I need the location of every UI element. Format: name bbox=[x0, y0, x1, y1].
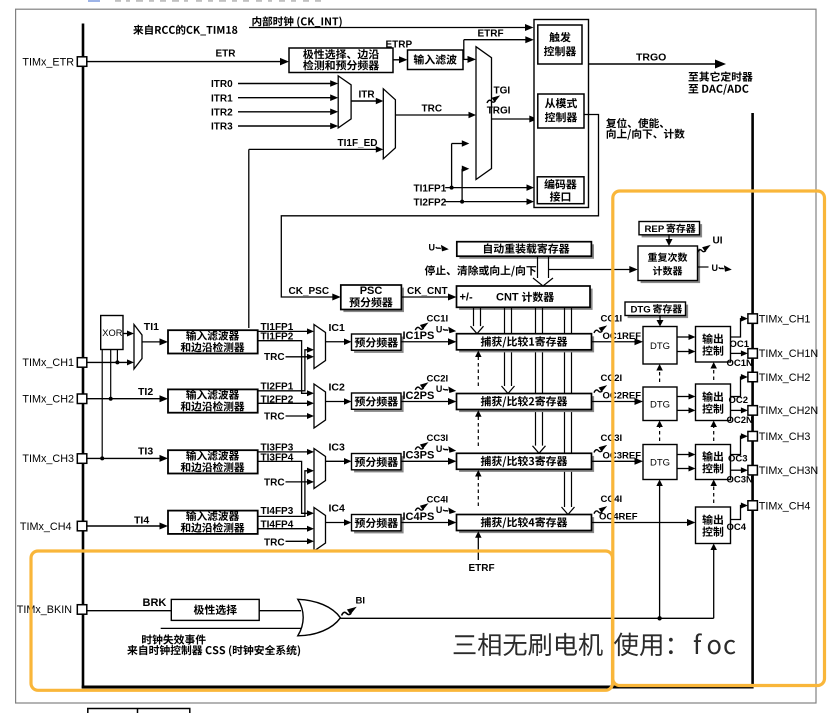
svg-text:OC3: OC3 bbox=[728, 454, 748, 465]
svg-text:ETRF: ETRF bbox=[469, 563, 495, 574]
mux IC1 select bbox=[314, 325, 326, 369]
arrow DTG reg to DTG1 bbox=[659, 316, 661, 322]
mux TI1 select (XOR/CH1) bbox=[134, 325, 142, 370]
pin TIMx_ETR bbox=[77, 57, 87, 67]
wire BRK bbox=[87, 610, 172, 612]
box encoder interface 编码器接口 bbox=[537, 177, 584, 204]
box prescaler 3 预分频器 bbox=[354, 456, 404, 472]
label 三相无刷电机使用：foc bbox=[454, 633, 603, 656]
box input filter & edge detector 2 输入滤波器和边沿检测器 bbox=[168, 389, 258, 412]
wire TRGI bbox=[492, 118, 530, 120]
svg-text:TI4FP4: TI4FP4 bbox=[261, 520, 294, 531]
dashed preload arrow into capture 1 bbox=[477, 356, 479, 387]
wire TI2FP2 row2 bbox=[258, 402, 308, 404]
wire BI to output-control column bbox=[340, 617, 714, 619]
box prescaler 4 预分频器 bbox=[354, 517, 404, 533]
box XOR bbox=[101, 316, 123, 350]
dashed break arrows into output controls bbox=[713, 486, 715, 503]
mux IC4 select bbox=[314, 508, 326, 552]
svg-text:TIMx_BKIN: TIMx_BKIN bbox=[17, 604, 72, 616]
box input filter & edge detector 3 输入滤波器和边沿检测器 bbox=[168, 450, 258, 473]
event icon U (ARR) bbox=[429, 243, 449, 253]
svg-text:TIMx_CH2N: TIMx_CH2N bbox=[759, 405, 818, 417]
wire TI1FP1 row1 bbox=[258, 330, 308, 332]
wire CH1 to TI1 mux bbox=[87, 361, 128, 363]
wire IC1 bbox=[326, 341, 345, 343]
wire XOR output bbox=[123, 333, 128, 335]
wire TI4FP3 row4 to IC3 bbox=[258, 471, 309, 517]
label UI + interrupt arrow bbox=[698, 245, 711, 253]
pin TIMx_BKIN bbox=[77, 605, 87, 615]
wire TI1FP2 row1 to IC2 bbox=[258, 341, 308, 394]
box REP register REP寄存器 bbox=[642, 224, 703, 237]
wire ITR3 bbox=[238, 125, 331, 127]
wire ETRF to trigger controller and TRGI mux bbox=[463, 58, 471, 60]
wire ETRP bbox=[393, 59, 401, 61]
svg-text:OC3REF: OC3REF bbox=[603, 450, 642, 461]
svg-text:TRC: TRC bbox=[264, 477, 285, 488]
wires DTG3 to output control bbox=[677, 454, 689, 456]
wire OC3 bbox=[731, 436, 742, 454]
box output control 3 输出控制 bbox=[696, 445, 731, 480]
pin TIMx_CH1 bbox=[748, 314, 758, 324]
svg-text:TIMx_ETR: TIMx_ETR bbox=[22, 57, 74, 69]
svg-text:TIMx_CH1: TIMx_CH1 bbox=[759, 313, 811, 325]
svg-text:TI4FP3: TI4FP3 bbox=[261, 506, 294, 517]
svg-text:DTG: DTG bbox=[650, 341, 670, 352]
wire clock-failure (CSS) to OR gate bbox=[161, 627, 303, 629]
event icon U (capture 1 left) bbox=[436, 324, 456, 334]
svg-text:IC4PS: IC4PS bbox=[403, 511, 435, 523]
label 时钟失效事件 bbox=[142, 634, 206, 644]
svg-text:TRC: TRC bbox=[422, 104, 443, 115]
wire XOR inputs from CH1/CH2/CH3 bbox=[116, 350, 118, 363]
svg-text:TIMx_CH2: TIMx_CH2 bbox=[759, 372, 811, 384]
svg-text:OC4REF: OC4REF bbox=[599, 512, 638, 523]
box polarity select 极性选择 bbox=[171, 599, 259, 620]
svg-text:TI2: TI2 bbox=[138, 386, 153, 398]
box repetition counter 重复次数计数器 bbox=[641, 249, 701, 284]
svg-text:ETRF: ETRF bbox=[478, 29, 504, 40]
svg-text:TI3: TI3 bbox=[138, 446, 153, 458]
right pin bus bbox=[751, 113, 754, 687]
box prescaler 2 预分频器 bbox=[354, 396, 404, 412]
label CC1I right + interrupt arrow bbox=[594, 325, 607, 333]
svg-text:CNT: CNT bbox=[496, 292, 519, 304]
svg-text:OC2: OC2 bbox=[729, 395, 749, 406]
wire TI4FP4 row4 bbox=[258, 528, 308, 530]
box trigger controller 触发控制器 bbox=[538, 25, 582, 64]
wire IC4PS bbox=[401, 522, 449, 524]
wire OC2N bbox=[731, 409, 742, 411]
svg-text:TIMx_CH3N: TIMx_CH3N bbox=[759, 465, 818, 477]
hollow arrow CNT to capture/compare 4 bbox=[564, 307, 566, 507]
svg-text:CK_PSC: CK_PSC bbox=[289, 286, 330, 297]
svg-text:BRK: BRK bbox=[143, 597, 167, 609]
pin TIMx_CH1 bbox=[77, 358, 87, 368]
wire TI3FP4 row3 to IC4 bbox=[258, 461, 308, 513]
box CNT counter CNT计数器 bbox=[459, 289, 592, 310]
svg-text:OC1: OC1 bbox=[730, 339, 750, 350]
box output control 4 输出控制 bbox=[696, 507, 731, 544]
svg-text:TIMx_CH1N: TIMx_CH1N bbox=[759, 348, 818, 360]
svg-text:OC2REF: OC2REF bbox=[603, 391, 642, 402]
svg-text:TI1: TI1 bbox=[144, 321, 159, 333]
svg-text:ITR1: ITR1 bbox=[211, 93, 233, 104]
wire TI2FP2 (to TRGI mux / encoder) bbox=[445, 201, 527, 203]
svg-text:BI: BI bbox=[356, 596, 366, 607]
wire TRGO bbox=[589, 63, 717, 65]
svg-text:IC3PS: IC3PS bbox=[403, 450, 435, 462]
highlight rect right (orange) bbox=[613, 191, 825, 686]
wire break to output control 4 bbox=[713, 550, 715, 618]
svg-text:IC2PS: IC2PS bbox=[403, 390, 435, 402]
svg-text:TRC: TRC bbox=[264, 352, 285, 363]
wire IC2PS bbox=[401, 401, 449, 403]
wire UEV to repetition counter bbox=[549, 269, 631, 271]
wire OC4 bbox=[731, 506, 742, 520]
mux ITR select bbox=[338, 76, 351, 128]
svg-text:IC1: IC1 bbox=[329, 322, 346, 334]
pin TIMx_CH3N bbox=[748, 465, 758, 475]
mux TRC select bbox=[383, 89, 395, 159]
svg-text:OC2N: OC2N bbox=[727, 415, 754, 426]
box input filter & edge detector 4 输入滤波器和边沿检测器 bbox=[168, 511, 258, 534]
svg-text:DTG: DTG bbox=[631, 304, 651, 315]
label 来自RCC的CK_TIM18 bbox=[133, 25, 237, 36]
svg-text:+/-: +/- bbox=[460, 292, 473, 304]
svg-text:IC4: IC4 bbox=[329, 503, 346, 515]
pin TIMx_CH2N bbox=[748, 406, 758, 416]
hollow arrow ARR to CNT bbox=[537, 256, 539, 278]
group box (trigger ctrl / slave mode / encoder) bbox=[534, 20, 589, 208]
hollow arrow CNT to capture/compare 2 bbox=[504, 307, 506, 386]
svg-text:XOR: XOR bbox=[102, 328, 122, 338]
label CC3I right + interrupt arrow bbox=[594, 445, 607, 453]
box capture/compare register 2 捕获/比较2寄存器 bbox=[459, 396, 594, 412]
label CC4I right + interrupt arrow bbox=[594, 506, 607, 514]
wire TRC row2 bbox=[286, 415, 308, 417]
svg-text:IC3: IC3 bbox=[329, 441, 346, 453]
hollow arrow CNT to capture/compare 1 bbox=[473, 307, 475, 326]
svg-text:OC3N: OC3N bbox=[727, 475, 754, 486]
box slave mode controller 从模式控制器 bbox=[538, 94, 584, 128]
event icon U (capture 3 left) bbox=[436, 444, 456, 454]
label TGI + interrupt arrow bbox=[487, 95, 500, 103]
wires DTG1 to output control bbox=[677, 336, 689, 338]
svg-text:ITR2: ITR2 bbox=[211, 107, 233, 118]
arrow REP to repetition counter bbox=[668, 235, 670, 240]
OR gate (break) bbox=[298, 599, 341, 636]
box DTG 1 bbox=[643, 327, 677, 365]
wire OC1REF bbox=[592, 341, 636, 343]
wire slave-mode feedback to CK_PSC bbox=[281, 115, 598, 298]
svg-text:ETRP: ETRP bbox=[386, 40, 413, 51]
box output control 1 输出控制 bbox=[696, 327, 731, 363]
wire OC1N bbox=[731, 352, 742, 354]
wire TRC (top) bbox=[395, 114, 469, 116]
box prescaler 1 预分频器 bbox=[354, 337, 404, 353]
hollow arrow CNT to capture/compare 3 bbox=[535, 307, 537, 446]
svg-text:TI3FP4: TI3FP4 bbox=[261, 452, 294, 463]
wire TI2 bbox=[87, 398, 160, 400]
label CC4I left + interrupt arrow bbox=[415, 503, 428, 511]
svg-text:TI2FP1: TI2FP1 bbox=[261, 382, 294, 393]
box input filter & edge detector 1 输入滤波器和边沿检测器 bbox=[168, 330, 258, 353]
svg-text:UI: UI bbox=[713, 236, 723, 247]
dashed break arrows into DTG1/DTG2 bbox=[659, 427, 661, 441]
svg-text:OC1REF: OC1REF bbox=[603, 331, 642, 342]
label CC2I right + interrupt arrow bbox=[594, 385, 607, 393]
pin TIMx_CH3 bbox=[77, 454, 87, 464]
svg-text:CC4I: CC4I bbox=[427, 494, 449, 505]
wire ITR1 bbox=[238, 97, 331, 99]
svg-text:DTG: DTG bbox=[650, 399, 670, 410]
box auto-reload register 自动重装载寄存器 bbox=[459, 244, 594, 258]
label 停止、清除或向上/向下 bbox=[425, 265, 536, 276]
svg-text:OC1N: OC1N bbox=[727, 358, 754, 369]
wires DTG2 to output control bbox=[677, 396, 689, 398]
box capture/compare register 1 捕获/比较1寄存器 bbox=[459, 336, 594, 352]
label 来自时钟控制器CSS(时钟安全系统) bbox=[127, 645, 300, 656]
wire TI3FP3 row3 bbox=[258, 451, 308, 453]
label BI + interrupt arrow bbox=[342, 607, 357, 616]
wire OC4REF bbox=[592, 522, 689, 524]
box capture/compare register 4 捕获/比较4寄存器 bbox=[459, 517, 594, 533]
svg-text:TRC: TRC bbox=[264, 538, 285, 549]
cropped title remnants top bbox=[115, 0, 121, 2]
svg-text:TI4: TI4 bbox=[134, 515, 149, 527]
event icon U (capture 2 left) bbox=[436, 384, 456, 394]
wire TI1FP1 (to TRGI mux / encoder) bbox=[445, 187, 527, 189]
svg-text:ITR: ITR bbox=[359, 90, 376, 101]
box input filter 输入滤波 bbox=[408, 50, 464, 70]
pin TIMx_CH2 bbox=[748, 372, 758, 382]
svg-text:CC3I: CC3I bbox=[427, 433, 449, 444]
wire IC1PS bbox=[401, 341, 449, 343]
svg-text:TIMx_CH3: TIMx_CH3 bbox=[759, 431, 811, 443]
wire OC3N bbox=[731, 469, 742, 471]
bottom bus bbox=[82, 686, 754, 689]
mux IC2 select bbox=[314, 384, 326, 428]
svg-text:TI1FP1: TI1FP1 bbox=[414, 183, 447, 194]
label CC2I left + interrupt arrow bbox=[415, 382, 428, 390]
wire CK_CNT bbox=[401, 296, 448, 298]
svg-text:TRC: TRC bbox=[264, 411, 285, 422]
svg-text:TI2FP2: TI2FP2 bbox=[261, 394, 294, 405]
wire TI1F_ED bbox=[248, 149, 250, 328]
box DTG 3 bbox=[643, 445, 677, 480]
wire CK_INT (internal clock) bbox=[249, 27, 527, 29]
wire IC3PS bbox=[401, 460, 449, 462]
svg-text:CK_CNT: CK_CNT bbox=[407, 286, 448, 297]
dashed preload arrow into capture 3 bbox=[477, 475, 479, 506]
mux TRGI select bbox=[476, 47, 492, 180]
wire TRC row4 bbox=[286, 540, 308, 542]
box PSC prescaler PSC预分频器 bbox=[343, 288, 404, 313]
event icon U (repetition) bbox=[698, 266, 709, 268]
pin TIMx_CH3 bbox=[748, 431, 758, 441]
wire TRC row1 bbox=[286, 356, 308, 358]
svg-text:TI2FP2: TI2FP2 bbox=[414, 197, 447, 208]
wire IC2 bbox=[326, 401, 345, 403]
svg-text:CC1I: CC1I bbox=[427, 314, 449, 325]
label 复位、使能、向上/向下、计数 bbox=[606, 118, 663, 128]
svg-text:ITR0: ITR0 bbox=[211, 79, 233, 90]
svg-text:DTG: DTG bbox=[650, 458, 670, 469]
wire IC4 bbox=[326, 522, 345, 524]
pin TIMx_CH1N bbox=[748, 349, 758, 359]
pin TIMx_CH4 bbox=[77, 521, 87, 531]
wire IC3 bbox=[326, 460, 345, 462]
wire TRC row3 bbox=[286, 481, 308, 483]
wire ITR bbox=[351, 100, 376, 102]
label CC3I left + interrupt arrow bbox=[415, 442, 428, 450]
svg-text:TIMx_CH1: TIMx_CH1 bbox=[22, 357, 74, 369]
box DTG 2 bbox=[643, 387, 677, 421]
svg-text:ITR3: ITR3 bbox=[211, 122, 233, 133]
box polarity/edge-detect/prescaler 极性选择、边沿检测和预分频器 bbox=[289, 48, 393, 73]
svg-text:TIMx_CH4: TIMx_CH4 bbox=[759, 500, 811, 512]
svg-text:REP: REP bbox=[645, 224, 665, 235]
svg-text:TGI: TGI bbox=[494, 86, 511, 97]
wire ETR bbox=[87, 61, 281, 63]
wire ITR0 bbox=[238, 83, 331, 85]
left pin bus bbox=[82, 24, 85, 689]
svg-text:TIMx_CH2: TIMx_CH2 bbox=[22, 393, 74, 405]
svg-text:TIMx_CH4: TIMx_CH4 bbox=[20, 521, 72, 533]
svg-text:TIMx_CH3: TIMx_CH3 bbox=[22, 453, 74, 465]
wire OC3REF bbox=[592, 460, 636, 462]
svg-text:TRGI: TRGI bbox=[487, 106, 511, 117]
label 内部时钟 (CK_INT) bbox=[252, 16, 341, 27]
dashed preload arrow into capture 2 bbox=[477, 415, 479, 446]
svg-text:PSC: PSC bbox=[360, 285, 383, 297]
svg-text:CC2I: CC2I bbox=[427, 373, 449, 384]
pin TIMx_CH4 bbox=[748, 501, 758, 511]
event icon U (capture 4 left) bbox=[436, 505, 456, 515]
pin TIMx_CH2 bbox=[77, 394, 87, 404]
svg-text:TRGO: TRGO bbox=[636, 52, 666, 64]
highlight rect bottom-left (orange) bbox=[31, 551, 613, 690]
svg-text:IC2: IC2 bbox=[329, 382, 346, 394]
svg-text:TI1FP2: TI1FP2 bbox=[261, 332, 294, 343]
wire TI4 bbox=[87, 525, 160, 527]
wire OC1 bbox=[731, 319, 742, 337]
svg-text:TI1F_ED: TI1F_ED bbox=[338, 138, 378, 149]
next-figure fragment bottom bbox=[87, 708, 191, 710]
box capture/compare register 3 捕获/比较3寄存器 bbox=[459, 456, 594, 472]
svg-text:ETR: ETR bbox=[216, 49, 237, 60]
wire ETRF into capture 4 bbox=[477, 536, 479, 560]
wire TI1 bbox=[142, 341, 161, 343]
svg-text:OC4: OC4 bbox=[727, 522, 747, 533]
mux IC3 select bbox=[314, 449, 326, 489]
wire OC2 bbox=[731, 377, 742, 397]
label CC1I left + interrupt arrow bbox=[415, 323, 428, 331]
box output control 2 输出控制 bbox=[696, 384, 731, 421]
svg-text:IC1PS: IC1PS bbox=[403, 330, 435, 342]
box DTG register DTG寄存器 bbox=[628, 305, 689, 319]
label 至其它定时器 / 至DAC/ADC bbox=[688, 71, 752, 81]
wire ITR2 bbox=[238, 111, 331, 113]
wire TI3 bbox=[87, 457, 160, 459]
wire polarity to OR gate bbox=[259, 610, 301, 612]
wire break to DTG3 bbox=[659, 486, 661, 618]
wire TI2FP1 row2 to IC1 bbox=[258, 350, 309, 391]
wire OC2REF bbox=[592, 401, 636, 403]
